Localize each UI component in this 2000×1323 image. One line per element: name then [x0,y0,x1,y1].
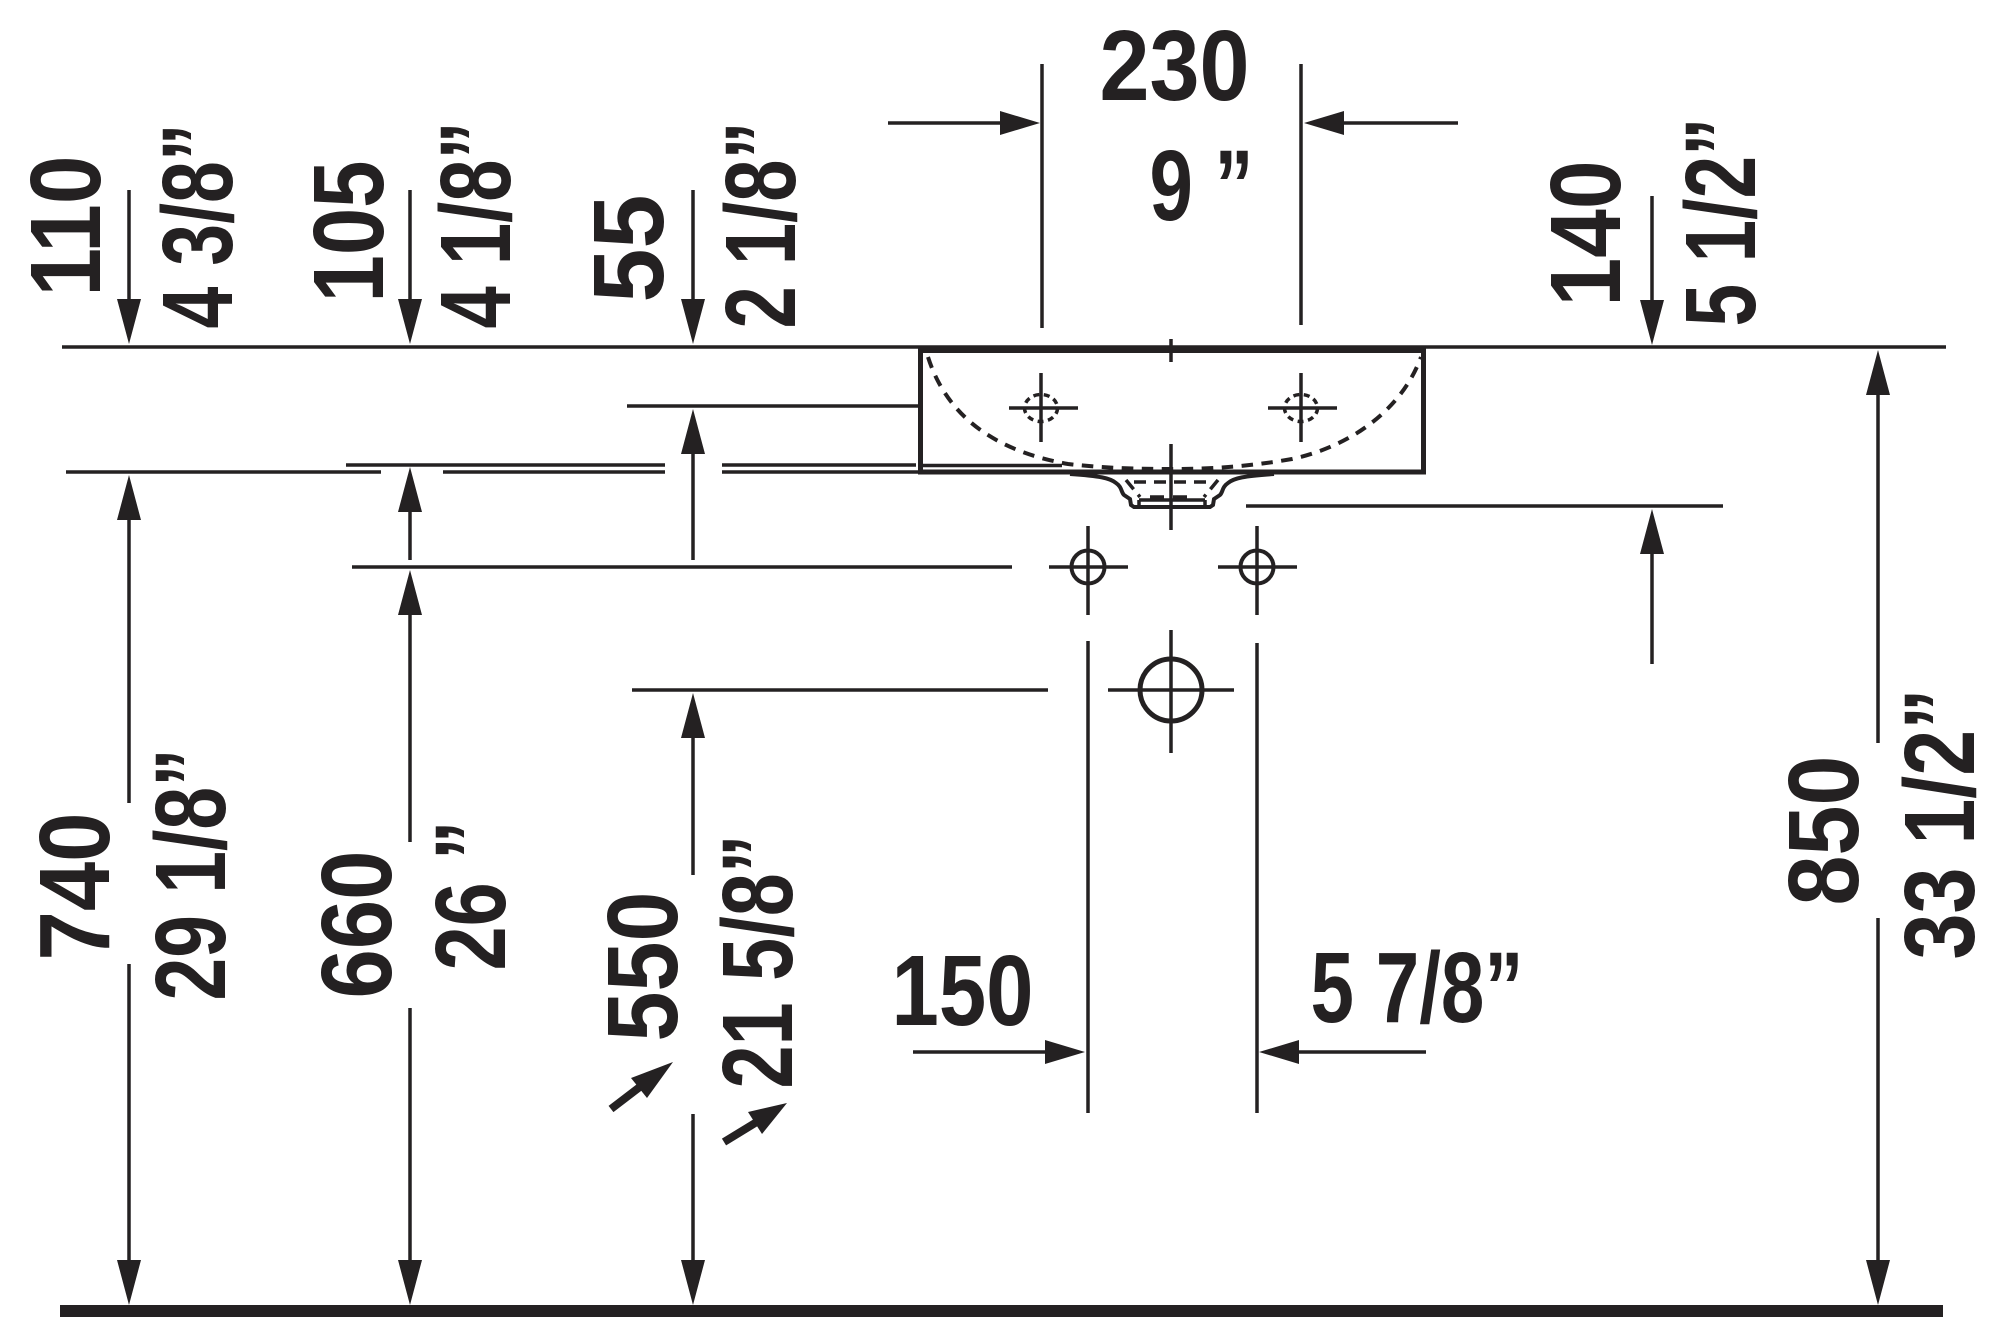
svg-text:9 ”: 9 ” [1150,130,1254,242]
svg-text:740: 740 [19,813,131,961]
svg-text:140: 140 [1530,161,1642,307]
svg-text:29 1/8”: 29 1/8” [135,749,247,1001]
svg-text:660: 660 [301,851,413,999]
svg-text:110: 110 [10,156,122,297]
svg-text:105: 105 [293,161,405,303]
svg-text:21 5/8”: 21 5/8” [702,835,814,1089]
svg-text:5 7/8”: 5 7/8” [1311,932,1524,1044]
svg-text:5 1/2”: 5 1/2” [1665,118,1777,327]
svg-text:26 ”: 26 ” [415,821,527,971]
svg-text:850: 850 [1768,756,1880,906]
svg-text:150: 150 [892,935,1034,1047]
svg-text:4 1/8”: 4 1/8” [420,122,532,329]
svg-text:550: 550 [587,892,699,1042]
svg-text:4 3/8”: 4 3/8” [142,124,254,329]
svg-text:230: 230 [1100,10,1250,122]
svg-text:33 1/2”: 33 1/2” [1884,689,1996,960]
svg-text:2 1/8”: 2 1/8” [705,122,817,329]
svg-text:55: 55 [573,195,685,303]
